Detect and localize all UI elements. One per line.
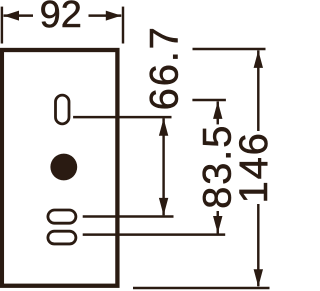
dim line 92 left xyxy=(4,14,34,16)
dim line B 83.5 top xyxy=(217,101,219,124)
plate outline xyxy=(2,50,118,286)
slot S2 xyxy=(48,231,76,244)
dim line A 66.7 xyxy=(162,118,164,215)
arrow C bottom xyxy=(254,269,263,287)
arrow 92 left xyxy=(4,11,20,21)
leader slot S2 xyxy=(83,233,226,235)
dim line 92 right xyxy=(89,14,122,16)
ref line 146 top xyxy=(193,48,266,50)
arrow C top xyxy=(254,50,263,68)
dim line B 83.5 bottom xyxy=(217,211,219,234)
arrow 92 right xyxy=(106,11,122,21)
ext line right (92) xyxy=(122,7,124,44)
arrow A top xyxy=(159,118,168,136)
arrow B top xyxy=(213,101,222,119)
arrow A bottom xyxy=(159,198,168,216)
circle hole xyxy=(50,154,77,181)
svg-text:66.7: 66.7 xyxy=(143,25,187,110)
slot S1 xyxy=(48,210,76,223)
dim line C 146 top xyxy=(257,50,259,131)
svg-text:146: 146 xyxy=(232,131,272,203)
arrow B bottom xyxy=(213,216,222,234)
svg-text:92: 92 xyxy=(40,0,82,36)
dim line C 146 bottom xyxy=(257,204,259,286)
ext line left (92) xyxy=(1,7,3,44)
keyhole slot xyxy=(56,95,70,124)
leader slot S1 xyxy=(83,215,174,217)
leader keyhole bottom arc xyxy=(73,116,171,118)
ref line 146 bottom xyxy=(133,287,270,289)
ref line keyhole top arc xyxy=(192,99,226,101)
